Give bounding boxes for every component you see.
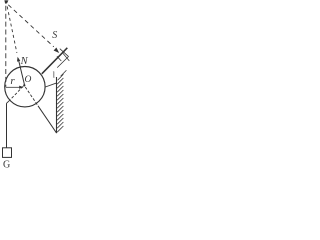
- wire dashed line of action of S: [8, 5, 54, 47]
- svg-text:N: N: [20, 56, 29, 67]
- strut from disc edge to wall bottom: [38, 106, 56, 133]
- svg-text:G: G: [3, 159, 10, 170]
- wire dashed axle line hidden in disc (to lower left): [9, 86, 23, 100]
- wire bar stub outside disc to rope: [7, 101, 10, 104]
- dimension r line with arrow toward centre: [6, 86, 21, 88]
- svg-text:S: S: [52, 30, 57, 41]
- hatching of vertical wall (upper zone): [58, 70, 67, 80]
- wall face line: [56, 77, 58, 133]
- link from disc edge to wall: [45, 83, 57, 87]
- svg-text:O: O: [25, 75, 32, 85]
- wire dashed continuation of N line to apex: [7, 7, 17, 53]
- node apex (meeting point of lines of action): [4, 0, 8, 3]
- wall top inclined face line: [57, 57, 68, 68]
- bar from pulley to wall: [42, 48, 68, 74]
- hatching at wall top incline: [57, 49, 69, 61]
- hatching of vertical wall: [57, 78, 63, 132]
- arrowhead force S: [54, 48, 60, 53]
- wire dashed strut hidden in disc: [25, 87, 38, 106]
- wire rope down to weight: [6, 103, 8, 148]
- wire vertical dashed line of action of G: [5, 6, 7, 87]
- force N arrow from O toward apex: [19, 60, 25, 85]
- svg-text:r: r: [10, 75, 15, 87]
- pulley disc: [5, 67, 45, 107]
- node O axle dot: [23, 84, 25, 86]
- weight block: [3, 148, 12, 158]
